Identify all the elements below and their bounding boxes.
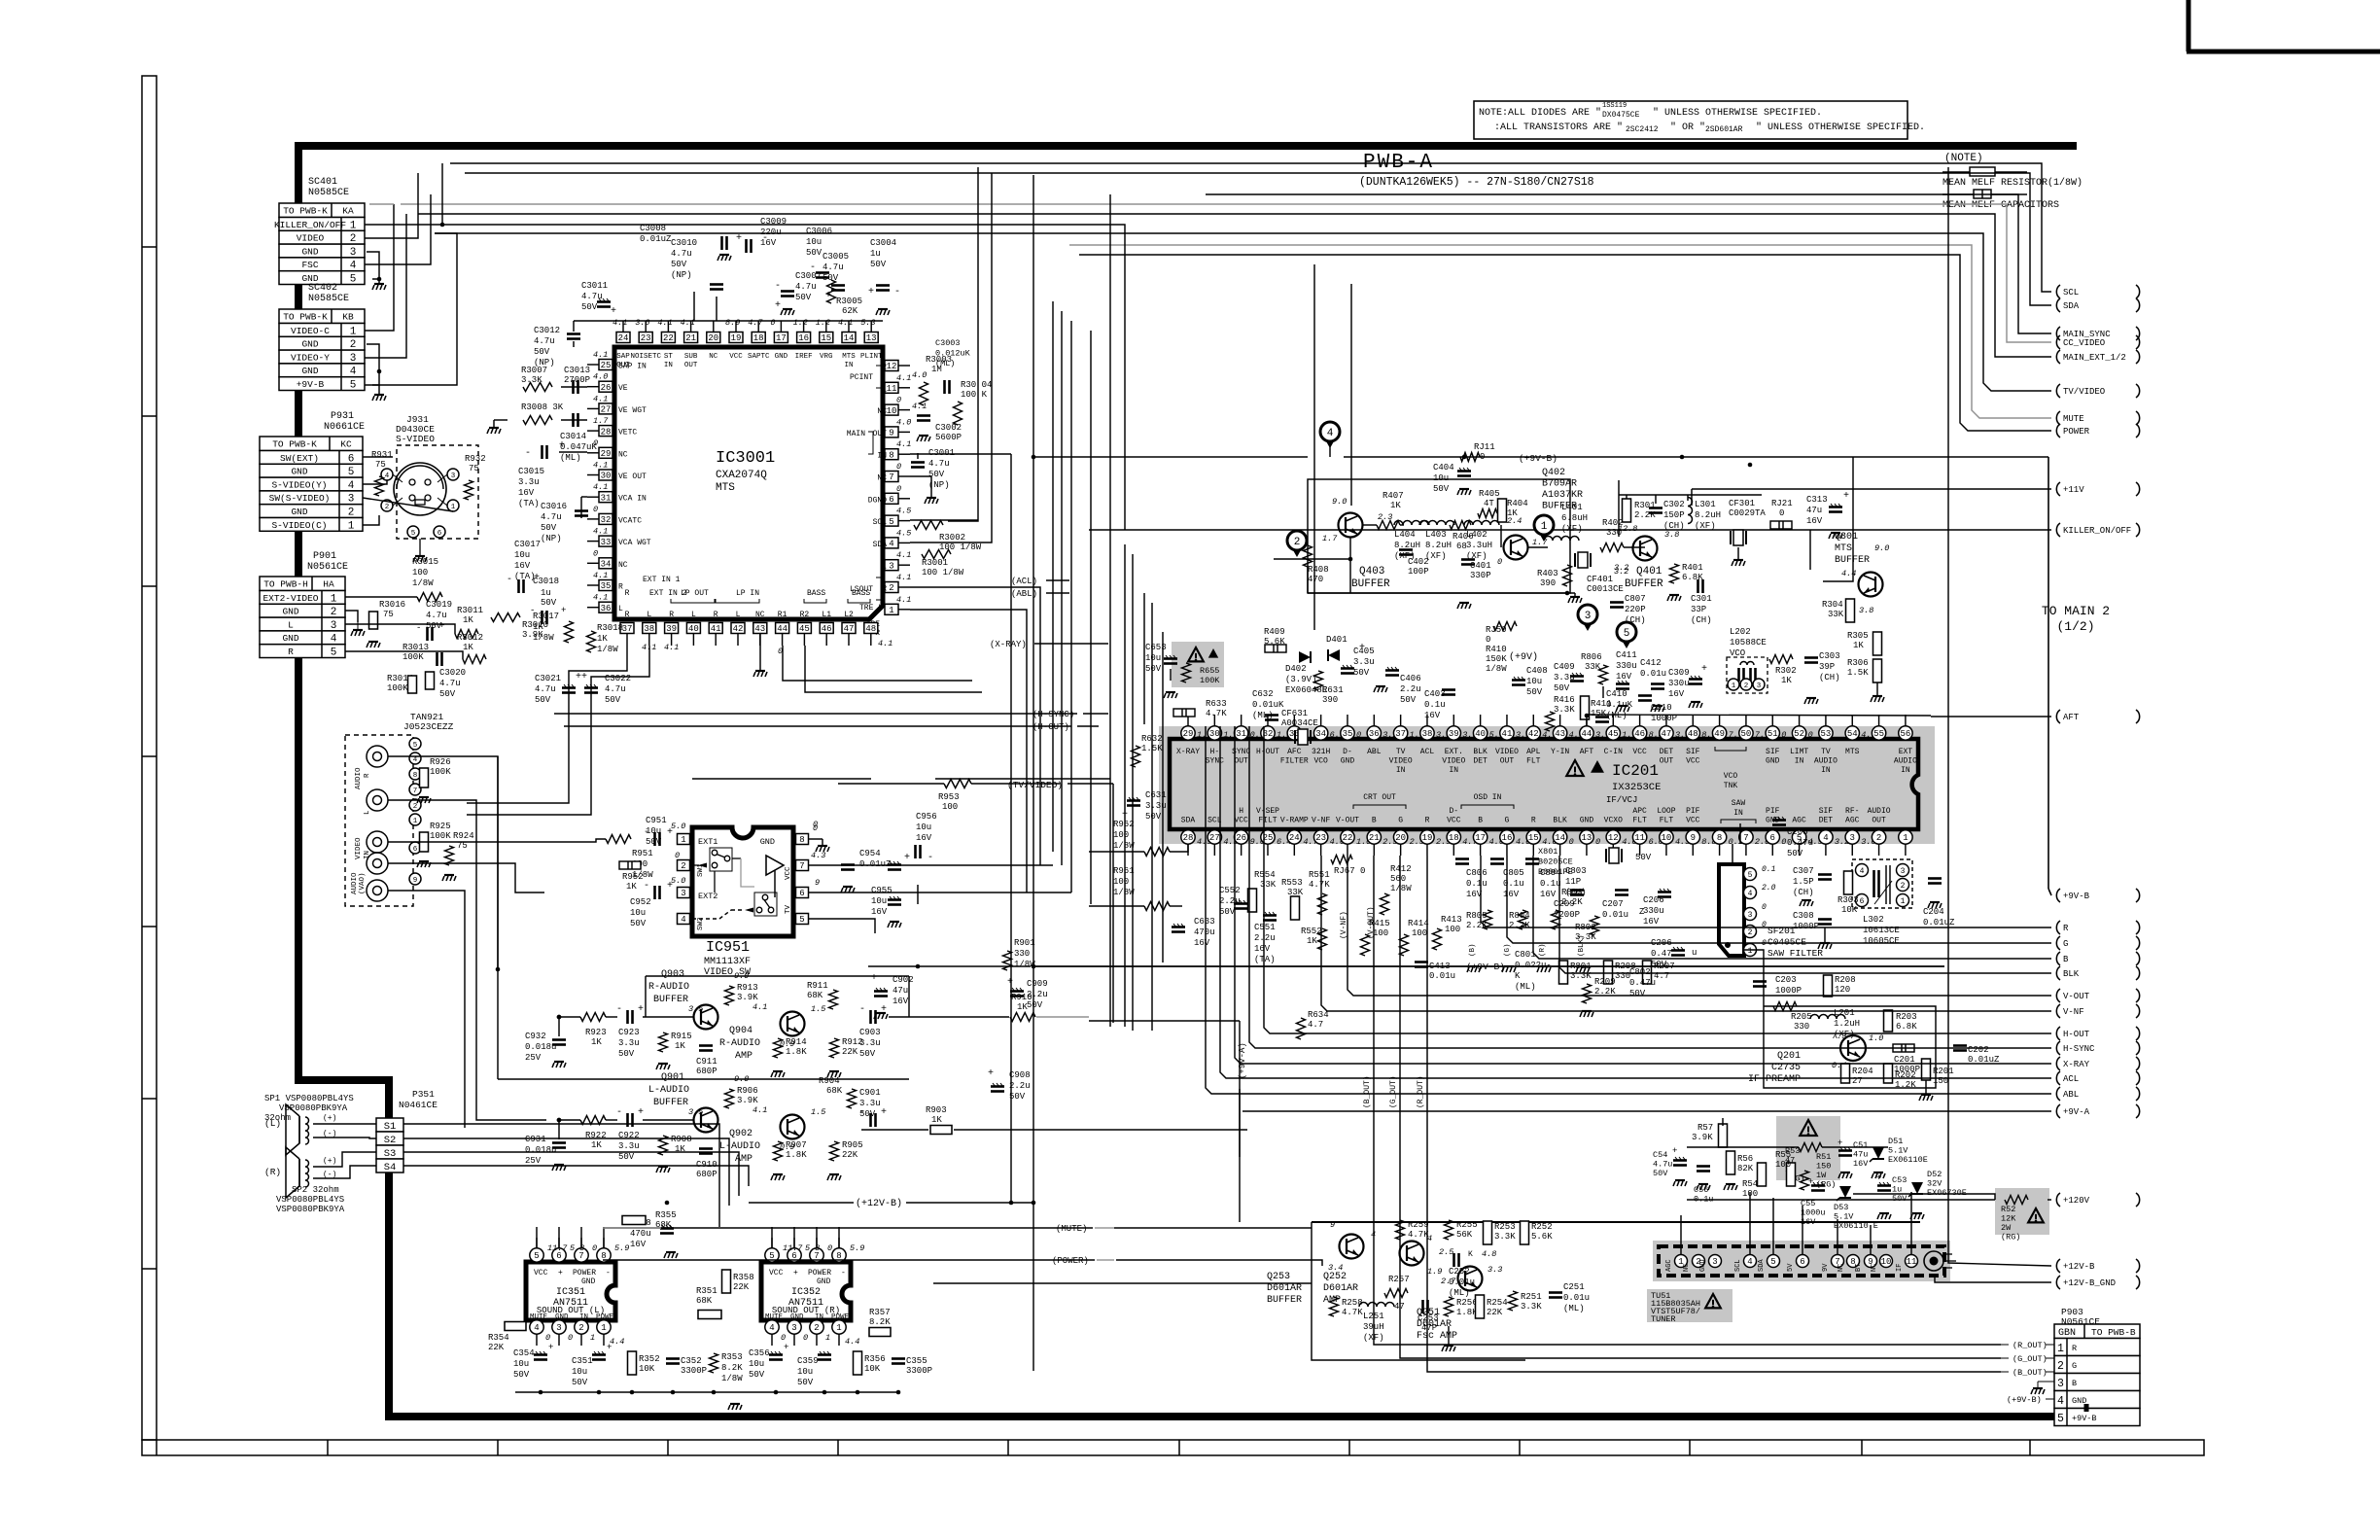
resistor R953	[944, 780, 971, 788]
svg-text:2: 2	[1744, 682, 1749, 690]
svg-text:C53: C53	[1892, 1175, 1907, 1185]
svg-text:5: 5	[1624, 628, 1630, 640]
svg-text:32: 32	[601, 515, 612, 525]
svg-text:AUDIO: AUDIO	[1868, 807, 1891, 816]
jack TAN921 2	[367, 789, 388, 811]
pin 20 IC201	[1393, 830, 1407, 844]
svg-text:G: G	[1505, 817, 1510, 825]
pin 6 TU51	[1797, 1255, 1809, 1268]
svg-text:50V: 50V	[1433, 484, 1450, 494]
svg-text:50V: 50V	[1219, 907, 1236, 917]
svg-text:VIDEO: VIDEO	[297, 233, 325, 244]
terminal MAIN_SYNC	[2056, 327, 2060, 340]
pin 8 IC951	[796, 834, 809, 845]
svg-text:L302: L302	[1863, 915, 1884, 925]
svg-text:6: 6	[413, 846, 418, 854]
svg-text:4.1: 4.1	[593, 593, 608, 603]
svg-text:0.47u: 0.47u	[1787, 838, 1813, 848]
pin 3 IC951	[678, 888, 690, 898]
svg-text:13: 13	[1582, 833, 1592, 843]
svg-text:30: 30	[601, 472, 612, 481]
wire IC351 pins up	[536, 1227, 538, 1248]
svg-text:47u: 47u	[892, 986, 908, 996]
svg-text:C909: C909	[1027, 979, 1048, 989]
svg-text:+: +	[793, 1269, 798, 1277]
svg-text:9: 9	[889, 429, 893, 438]
svg-text:2: 2	[413, 803, 418, 811]
svg-text:100K: 100K	[1200, 676, 1220, 685]
svg-text:(CH): (CH)	[1691, 615, 1712, 625]
pin 16 IC3001	[797, 332, 811, 343]
svg-text:(ML): (ML)	[935, 359, 955, 368]
svg-text:(B_OUT): (B_OUT)	[2012, 1368, 2047, 1378]
svg-text:EXT.: EXT.	[1445, 748, 1463, 756]
svg-text:RJ67 0: RJ67 0	[1334, 866, 1365, 876]
svg-text:3.3: 3.3	[1487, 1265, 1502, 1275]
ground SC401	[367, 252, 379, 279]
svg-text:1/8W: 1/8W	[597, 645, 618, 654]
svg-text:OUT: OUT	[1872, 817, 1886, 825]
wire bass	[783, 646, 972, 681]
svg-text:4.7: 4.7	[748, 318, 763, 328]
wire Q403 chain	[1363, 524, 1377, 526]
svg-text:C3002: C3002	[935, 423, 962, 433]
pin 1 IC951	[678, 834, 690, 845]
svg-text:1: 1	[1748, 947, 1753, 956]
svg-text:150K: 150K	[1486, 654, 1507, 664]
ground saw area	[1802, 899, 1811, 901]
svg-text:+: +	[1359, 643, 1365, 653]
svg-text:L2: L2	[844, 611, 854, 619]
svg-text:MTS: MTS	[842, 353, 856, 361]
frame Q403 stage	[1308, 479, 1570, 593]
capacitor C401	[1461, 558, 1475, 561]
wire h-out long	[564, 725, 1071, 727]
svg-text:KA: KA	[342, 206, 354, 217]
svg-text:0: 0	[1762, 903, 1767, 912]
svg-text:4.1: 4.1	[681, 318, 695, 328]
svg-text:SIF: SIF	[1819, 807, 1834, 816]
wire CC_VIDEO bus	[401, 204, 2051, 342]
pin 33 IC201	[1287, 726, 1301, 740]
svg-text:R: R	[669, 611, 674, 619]
svg-text:NC: NC	[1871, 1264, 1878, 1272]
svg-text:R305: R305	[1847, 631, 1869, 641]
pin 24 IC3001	[616, 332, 630, 343]
terminal X-RAY	[2056, 1057, 2060, 1070]
wire gray cc	[369, 203, 394, 205]
svg-text:8.2uH: 8.2uH	[1425, 541, 1452, 550]
pin 44 IC3001	[776, 623, 789, 634]
svg-text:IN: IN	[844, 362, 853, 369]
svg-text:C355: C355	[906, 1356, 927, 1366]
svg-text:3: 3	[889, 561, 893, 571]
svg-text:0.01u: 0.01u	[1640, 669, 1666, 679]
pin 34 IC201	[1313, 726, 1327, 740]
svg-text:50V: 50V	[1400, 695, 1417, 705]
svg-text:C3013: C3013	[564, 366, 590, 375]
svg-text:16V: 16V	[1254, 944, 1271, 954]
wire r-out ret	[1481, 856, 2051, 927]
wire p901 R	[345, 651, 463, 659]
svg-text:SDA: SDA	[873, 541, 888, 549]
svg-text:C-IN: C-IN	[1604, 748, 1623, 756]
svg-text:6.8uH: 6.8uH	[1561, 513, 1588, 523]
svg-text:(X-RAY): (X-RAY)	[990, 640, 1027, 649]
wire tuner if	[1910, 1192, 1912, 1254]
wire v1142	[1109, 194, 1111, 1027]
svg-text:47u: 47u	[1806, 506, 1822, 515]
svg-text:IN: IN	[1821, 766, 1831, 775]
pin 28 IC3001	[599, 426, 612, 437]
svg-text:EXT: EXT	[1899, 748, 1913, 756]
svg-text:S-VIDEO(Y): S-VIDEO(Y)	[271, 479, 327, 490]
svg-text:R: R	[1531, 817, 1536, 825]
wire h-sync long	[554, 713, 1077, 715]
capacitor C807	[1610, 601, 1624, 604]
svg-text:PCINT: PCINT	[850, 373, 873, 382]
transistor Q253	[1340, 1235, 1364, 1259]
svg-text:GND: GND	[282, 607, 298, 617]
svg-text:1: 1	[1541, 521, 1548, 533]
svg-text:VSP0080PBK9YA: VSP0080PBK9YA	[279, 1103, 348, 1113]
svg-text:8.2K: 8.2K	[721, 1363, 743, 1373]
svg-text:-: -	[525, 448, 531, 459]
capacitor C301	[1697, 579, 1699, 593]
svg-text:1W: 1W	[1816, 1171, 1827, 1180]
svg-text:IN: IN	[664, 362, 673, 369]
ground NC10	[919, 435, 928, 437]
svg-text:IN: IN	[364, 851, 371, 859]
svg-text:A0034CE: A0034CE	[1281, 718, 1318, 728]
svg-text:6: 6	[437, 530, 442, 538]
svg-text:4.1: 4.1	[752, 1105, 767, 1115]
resistor R208b	[1604, 961, 1613, 984]
svg-text:3: 3	[350, 353, 357, 365]
svg-text:(NOTE): (NOTE)	[1944, 153, 1983, 164]
svg-text:5: 5	[534, 1251, 539, 1261]
svg-text:R401: R401	[1682, 563, 1703, 573]
svg-text:2: 2	[385, 504, 390, 511]
terminal ABL	[2056, 1087, 2060, 1101]
svg-text:6.8K: 6.8K	[1682, 573, 1703, 582]
svg-text:L: L	[691, 611, 696, 619]
svg-text:R413: R413	[1441, 915, 1462, 925]
svg-text:R55: R55	[1775, 1150, 1791, 1160]
pin 29 IC3001	[599, 447, 612, 458]
svg-text:C404: C404	[1433, 463, 1454, 472]
jack TAN921 1	[367, 746, 388, 767]
svg-text:R3016: R3016	[379, 600, 405, 610]
svg-text:(XF): (XF)	[1695, 521, 1716, 531]
svg-text:+: +	[548, 1343, 553, 1352]
connector J931	[397, 445, 478, 539]
svg-text:R952: R952	[622, 872, 644, 882]
svg-text:14: 14	[844, 333, 855, 343]
svg-text:R203: R203	[1896, 1012, 1917, 1022]
resistor R952	[619, 861, 641, 869]
svg-text:4.1: 4.1	[657, 318, 672, 328]
svg-text:100 1/8W: 100 1/8W	[939, 542, 982, 552]
resistor R203	[1884, 1010, 1893, 1032]
svg-text:VE OUT: VE OUT	[618, 472, 647, 481]
svg-text:L: L	[647, 611, 651, 619]
svg-text:19: 19	[1422, 833, 1433, 843]
svg-text:GND: GND	[817, 1277, 831, 1286]
svg-text:L402: L402	[1466, 530, 1487, 540]
svg-text:R256: R256	[1456, 1298, 1478, 1308]
wire gray mute2	[603, 1227, 661, 1229]
svg-text:21: 21	[685, 333, 696, 343]
svg-text:680P: 680P	[696, 1170, 717, 1179]
svg-text:+: +	[868, 287, 874, 297]
svg-text:1000P: 1000P	[1793, 922, 1819, 931]
terminal +9V-A	[2056, 1104, 2060, 1118]
pin 5 IC951	[796, 914, 809, 925]
svg-text:50V: 50V	[1629, 989, 1646, 998]
svg-text:R208: R208	[1835, 975, 1856, 985]
svg-text:R553: R553	[1281, 878, 1303, 888]
svg-text:16V: 16V	[916, 833, 932, 843]
svg-text:R306: R306	[1847, 658, 1869, 668]
svg-text:NC: NC	[618, 561, 628, 570]
svg-text:J0523CEZZ: J0523CEZZ	[403, 721, 454, 732]
svg-text:R923: R923	[585, 1028, 607, 1037]
svg-text:X-RAY: X-RAY	[1176, 748, 1200, 756]
svg-text:18: 18	[1449, 833, 1459, 843]
svg-text:R806: R806	[1581, 652, 1602, 662]
resistor R201	[1922, 1059, 1931, 1080]
svg-text:R414: R414	[1408, 919, 1429, 928]
svg-text:5: 5	[1748, 871, 1753, 880]
svg-text:Q904: Q904	[729, 1026, 752, 1036]
pin 11 IC3001	[885, 382, 898, 393]
svg-text:50V: 50V	[1651, 960, 1667, 969]
marker 4	[1320, 422, 1340, 441]
capacitor C251	[1549, 1291, 1562, 1294]
svg-text:7: 7	[889, 472, 893, 482]
resistor R259	[1396, 1220, 1405, 1240]
svg-text:0: 0	[1808, 730, 1813, 740]
svg-text:X801: X801	[1538, 847, 1557, 857]
svg-text:1.5K: 1.5K	[1847, 668, 1869, 678]
svg-text:L404: L404	[1394, 530, 1416, 540]
svg-text:4: 4	[350, 261, 357, 272]
wire r961 l	[1089, 905, 1144, 907]
svg-text:2: 2	[2057, 1360, 2064, 1373]
svg-text:EX06048E: EX06048E	[1285, 685, 1327, 695]
svg-text:22K: 22K	[733, 1282, 750, 1292]
svg-text:1/8W: 1/8W	[533, 633, 554, 643]
wire v2004	[1948, 167, 2051, 1266]
svg-text:+: +	[638, 1107, 644, 1118]
svg-text:4: 4	[385, 472, 390, 480]
svg-text:SAW: SAW	[1732, 799, 1746, 808]
svg-text:OSD IN: OSD IN	[1474, 793, 1502, 802]
capacitor C302	[1649, 507, 1662, 509]
wire audio bottom bus	[515, 1391, 900, 1393]
svg-text:3: 3	[1748, 911, 1753, 920]
svg-text:1.2uH: 1.2uH	[1834, 1019, 1860, 1029]
svg-text:36: 36	[601, 604, 612, 613]
svg-text:-: -	[616, 1107, 622, 1118]
resistor R358	[722, 1270, 731, 1293]
svg-text:54: 54	[1847, 729, 1858, 739]
svg-text:C401: C401	[1470, 561, 1491, 571]
pin 19 IC201	[1420, 830, 1434, 844]
svg-text:4: 4	[1860, 867, 1865, 876]
svg-text:4.1: 4.1	[878, 639, 892, 648]
svg-text:4: 4	[413, 756, 418, 764]
svg-text:C309: C309	[1668, 668, 1690, 678]
svg-text:" OR ": " OR "	[1670, 122, 1705, 133]
wire 9vb rail left	[868, 965, 1031, 967]
svg-text:1: 1	[350, 326, 357, 337]
svg-text:PIF: PIF	[1766, 807, 1780, 816]
svg-text:AFT: AFT	[2063, 713, 2080, 722]
svg-text:R931: R931	[371, 450, 393, 460]
svg-text:R926: R926	[430, 757, 451, 767]
pin 44 IC201	[1580, 726, 1593, 740]
svg-text:P351: P351	[412, 1089, 435, 1100]
svg-text:AUDIO: AUDIO	[355, 767, 363, 789]
svg-text:8: 8	[889, 450, 893, 460]
diode D51	[1872, 1147, 1884, 1159]
svg-text:C802: C802	[1629, 967, 1651, 977]
svg-text:0: 0	[1779, 508, 1784, 518]
connector SC402 KB	[279, 309, 365, 324]
svg-text:C911: C911	[696, 1057, 717, 1067]
svg-text:R416: R416	[1554, 695, 1575, 705]
svg-text:C202: C202	[1968, 1045, 1989, 1055]
pin 50 IC201	[1739, 726, 1753, 740]
svg-text:Q903: Q903	[661, 969, 684, 980]
svg-text:4.0: 4.0	[912, 370, 927, 380]
pin 7 IC951	[796, 860, 809, 871]
svg-text:L: L	[882, 563, 887, 572]
svg-text:DET: DET	[1819, 817, 1834, 825]
svg-text:L1: L1	[822, 611, 831, 619]
svg-text:1: 1	[331, 593, 337, 605]
transistor Q903 Q904 stage	[694, 1005, 718, 1030]
wire v1352	[1313, 264, 1315, 630]
svg-text:PIF: PIF	[1686, 807, 1700, 816]
svg-text:(TA): (TA)	[1254, 955, 1276, 964]
svg-text:10K: 10K	[864, 1364, 881, 1374]
terminal MAIN_EXT_1/2	[2056, 350, 2060, 364]
svg-text:POWER: POWER	[596, 1313, 618, 1321]
svg-text:C54: C54	[1653, 1150, 1667, 1160]
svg-text:10605CE: 10605CE	[1863, 936, 1900, 946]
svg-text:C932: C932	[525, 1032, 546, 1041]
svg-text:(R): (R)	[264, 1167, 281, 1177]
svg-text:BUFFER: BUFFER	[1267, 1295, 1302, 1306]
wire mute long	[603, 1227, 1093, 1229]
svg-text:NC: NC	[618, 450, 628, 459]
svg-text:(NP): (NP)	[541, 534, 562, 543]
svg-text:2200P: 2200P	[1554, 910, 1580, 920]
capacitor C922	[626, 1113, 629, 1127]
capacitor C253	[1421, 1300, 1424, 1313]
svg-text:BLK: BLK	[1553, 817, 1567, 825]
svg-text:48: 48	[865, 624, 876, 634]
terminal AFT	[2056, 710, 2060, 723]
svg-text:50V: 50V	[1145, 812, 1162, 822]
svg-text:R302: R302	[1775, 666, 1797, 676]
svg-text:BT: BT	[1855, 1264, 1863, 1272]
svg-text:3: 3	[1850, 833, 1855, 843]
svg-text:16V: 16V	[1540, 890, 1557, 899]
capacitor C355	[892, 1357, 905, 1360]
pin 40 IC201	[1473, 726, 1487, 740]
svg-text:35: 35	[601, 581, 612, 591]
svg-text:(ML): (ML)	[1563, 1304, 1585, 1313]
resistor R253	[1484, 1221, 1492, 1244]
svg-text:G: G	[2072, 1361, 2077, 1371]
svg-text:R355: R355	[655, 1210, 677, 1220]
svg-text:0.01uK: 0.01uK	[1252, 700, 1284, 710]
tuner TU51 body	[1653, 1241, 1950, 1281]
svg-text:4.5: 4.5	[896, 528, 911, 538]
svg-text:35: 35	[1343, 729, 1353, 739]
svg-text:C352: C352	[681, 1356, 702, 1366]
svg-text:1: 1	[2057, 1343, 2064, 1355]
wire v1102	[1070, 321, 1072, 892]
ground SC402	[367, 344, 379, 385]
terminal TV/VIDEO	[2056, 384, 2060, 398]
wire ext in2	[467, 646, 649, 815]
svg-text:0.018u: 0.018u	[525, 1042, 556, 1052]
svg-text:16: 16	[798, 333, 809, 343]
svg-text:A1037KR: A1037KR	[1542, 490, 1583, 501]
svg-text:FLT: FLT	[1660, 817, 1674, 825]
svg-text:1u: 1u	[1892, 1185, 1902, 1195]
svg-text:50V: 50V	[513, 1370, 530, 1380]
pin 33 IC3001	[599, 536, 612, 546]
svg-text:NC: NC	[709, 353, 718, 361]
svg-text:R57: R57	[1697, 1123, 1713, 1133]
connector P903 GBN	[2054, 1324, 2140, 1339]
svg-text:SAP: SAP	[616, 353, 630, 361]
svg-text:FSC: FSC	[301, 260, 318, 270]
svg-text:5: 5	[348, 467, 355, 478]
resistor R51	[1799, 1143, 1822, 1152]
wire aft2	[1587, 715, 1931, 716]
resistor R204	[1841, 1064, 1850, 1083]
svg-text:AFT: AFT	[1580, 748, 1594, 756]
svg-text:8: 8	[413, 772, 418, 780]
resistor R302	[1769, 655, 1793, 664]
terminal +9V-B	[2056, 889, 2060, 902]
op-amp IC951 body	[692, 827, 793, 936]
svg-text:C402: C402	[1408, 557, 1429, 567]
svg-text:C807: C807	[1625, 594, 1646, 604]
svg-text:4.7u: 4.7u	[822, 262, 844, 272]
svg-text:C3003: C3003	[935, 338, 961, 348]
resistor R907	[774, 1141, 783, 1161]
svg-text:L401: L401	[1561, 503, 1583, 512]
svg-text:16V: 16V	[871, 907, 888, 917]
wire r962 l	[1089, 851, 1144, 853]
svg-text:5.6K: 5.6K	[1531, 1232, 1553, 1242]
wire ext2v	[345, 596, 417, 598]
wire v1083	[1052, 301, 1054, 852]
capacitor C303	[1804, 656, 1818, 659]
svg-text:(+12V-B): (+12V-B)	[856, 1198, 902, 1209]
wire video-y SC402	[365, 214, 406, 358]
svg-text:SC402: SC402	[308, 283, 337, 294]
svg-text:3: 3	[451, 472, 456, 480]
